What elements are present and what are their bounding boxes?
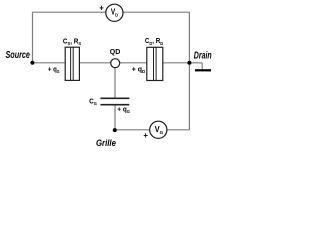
svg-text:+: + [143,131,148,140]
svg-text:CG: CG [89,98,97,106]
svg-text:QD: QD [110,49,121,56]
svg-text:CD, RD: CD, RD [145,38,163,46]
svg-text:+ qD: + qD [132,67,146,75]
svg-text:+ qG: + qG [117,106,130,114]
svg-text:Grille: Grille [96,138,116,149]
svg-text:+ qS: + qS [48,66,60,74]
svg-text:+: + [99,4,104,13]
svg-text:CS, RS: CS, RS [63,38,81,46]
svg-text:Drain: Drain [194,49,212,61]
svg-text:Source: Source [6,49,31,60]
